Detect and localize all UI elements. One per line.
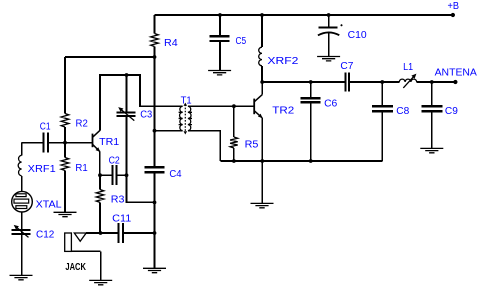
svg-text:R4: R4 [164, 38, 178, 49]
svg-text:JACK: JACK [65, 262, 86, 273]
svg-text:C5: C5 [236, 36, 247, 47]
svg-text:ANTENA: ANTENA [435, 68, 478, 79]
svg-text:C2: C2 [109, 156, 121, 167]
svg-text:XRF1: XRF1 [28, 164, 56, 175]
svg-text:TR1: TR1 [99, 137, 120, 148]
svg-text:C9: C9 [445, 106, 458, 117]
svg-text:R5: R5 [245, 140, 259, 151]
svg-text:+B: +B [448, 1, 460, 12]
svg-text:C4: C4 [169, 169, 182, 180]
svg-text:C12: C12 [36, 230, 55, 241]
svg-text:T1: T1 [181, 96, 192, 107]
svg-text:XRF2: XRF2 [267, 56, 299, 67]
svg-text:C3: C3 [140, 109, 152, 120]
svg-text:C6: C6 [324, 99, 338, 110]
svg-text:R2: R2 [76, 119, 89, 130]
svg-text:C10: C10 [348, 30, 367, 41]
svg-text:TR2: TR2 [272, 105, 294, 116]
svg-text:R1: R1 [75, 163, 88, 174]
svg-text:C1: C1 [40, 122, 51, 133]
svg-text:L1: L1 [403, 62, 413, 73]
svg-text:R3: R3 [111, 194, 125, 205]
svg-text:C7: C7 [340, 61, 353, 72]
svg-text:XTAL: XTAL [36, 200, 62, 211]
svg-text:C8: C8 [396, 106, 409, 117]
svg-text:C11: C11 [112, 214, 132, 225]
